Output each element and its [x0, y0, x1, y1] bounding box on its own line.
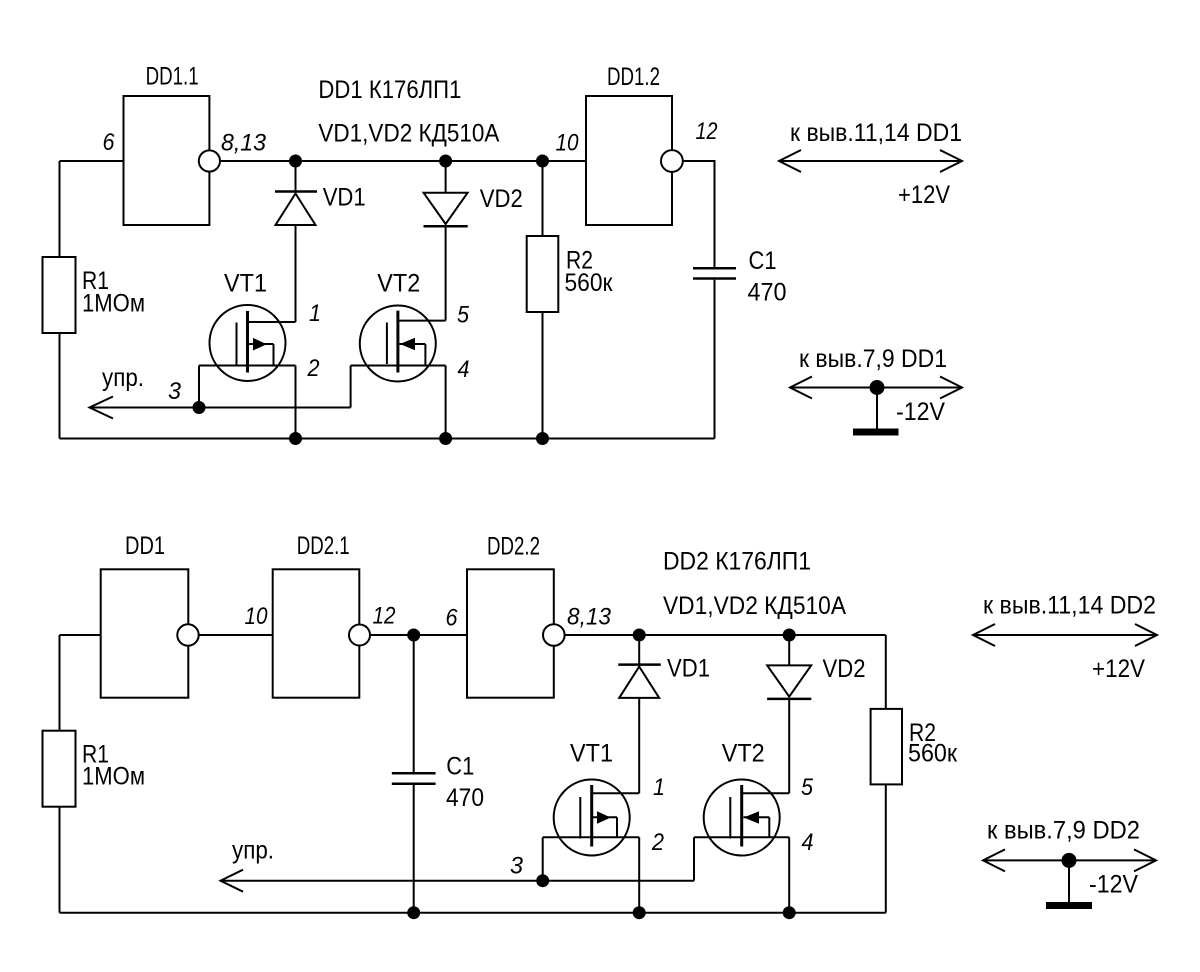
wire: VT2 source drop to bottom bus — [445, 366, 447, 439]
svg-text:VT2: VT2 — [377, 269, 420, 297]
svg-text:к выв.7,9 DD1: к выв.7,9 DD1 — [799, 345, 947, 373]
svg-text:8,13: 8,13 — [221, 130, 267, 157]
inversion bubble DD2.2 output — [543, 624, 565, 646]
wire: VT1 source drop to bottom bus — [295, 366, 297, 439]
logic gate DD1.2 box — [586, 96, 672, 225]
resistor R2 leads (bottom) — [885, 635, 887, 709]
resistor R2 — [527, 236, 559, 312]
wire: left branch vertical (R1 leads) — [59, 635, 61, 731]
svg-text:VD1: VD1 — [323, 184, 366, 212]
node: dot on -12V arrow (bottom) — [1062, 853, 1077, 868]
wire: VT2 gate rise from control net — [350, 366, 352, 408]
svg-text:DD2.2: DD2.2 — [487, 533, 540, 561]
node: bus dot VT1 — [633, 906, 646, 919]
svg-text:10: 10 — [245, 603, 269, 630]
wire: ground stem (bottom) — [1068, 860, 1070, 902]
svg-text:DD2.1: DD2.1 — [297, 532, 350, 560]
inversion bubble DD1.2 output — [661, 150, 683, 172]
wire: C1 branch upper — [413, 635, 415, 772]
wire: VT1 source drop to bottom bus — [638, 837, 640, 912]
inversion bubble DD2.1 output — [349, 625, 370, 646]
svg-text:DD1.2: DD1.2 — [607, 63, 660, 91]
transistor VT2 (MOSFET) — [351, 306, 446, 382]
svg-text:VT1: VT1 — [224, 269, 267, 297]
svg-text:2: 2 — [307, 355, 320, 382]
svg-text:к выв.7,9 DD2: к выв.7,9 DD2 — [987, 817, 1140, 845]
node: junction dot VD2 — [783, 629, 796, 642]
svg-text:470: 470 — [446, 784, 484, 812]
svg-text:DD1: DD1 — [125, 532, 165, 560]
svg-text:VT1: VT1 — [570, 740, 613, 768]
svg-text:упр.: упр. — [102, 364, 144, 392]
svg-text:5: 5 — [801, 774, 814, 801]
+12V supply double arrow (bottom) — [973, 624, 1157, 646]
resistor R2 (bottom) — [871, 709, 902, 785]
svg-text:3: 3 — [510, 852, 524, 879]
svg-text:560к: 560к — [565, 269, 614, 297]
svg-text:C1: C1 — [749, 247, 777, 275]
wire: DD2.2 output net to R2 — [565, 634, 886, 636]
resistor R1 — [43, 257, 76, 333]
svg-text:DD1 К176ЛП1: DD1 К176ЛП1 — [318, 76, 461, 104]
svg-text:1: 1 — [309, 300, 321, 327]
resistor R1 (bottom) — [43, 731, 76, 807]
inversion bubble DD1.1 output — [199, 150, 220, 171]
svg-text:1МОм: 1МОм — [82, 763, 145, 791]
svg-text:1МОм: 1МОм — [82, 289, 145, 317]
wire: VT1 gate drop to control net — [198, 366, 200, 408]
-12V supply double arrow (bottom) — [983, 849, 1156, 871]
node: junction dot VD1 — [633, 629, 646, 642]
svg-text:VD1,VD2 КД510А: VD1,VD2 КД510А — [663, 592, 846, 620]
svg-text:DD2 К176ЛП1: DD2 К176ЛП1 — [663, 548, 811, 576]
ground symbol — [853, 429, 899, 436]
inversion bubble DD1 output — [177, 624, 198, 645]
capacitor C1 — [693, 267, 736, 270]
svg-text:DD1.1: DD1.1 — [146, 62, 199, 90]
node: junction dot R2/top net — [536, 155, 549, 168]
node: junction dot gate VT1/control (bottom) — [536, 874, 549, 887]
capacitor C1 (bottom) — [392, 772, 436, 775]
logic gate DD1.1 box — [124, 96, 210, 225]
wire: ground stem — [876, 388, 878, 430]
svg-text:4: 4 — [458, 356, 470, 383]
node: junction dot C1 — [407, 629, 420, 642]
svg-text:VD2: VD2 — [823, 655, 866, 683]
svg-text:VT2: VT2 — [722, 740, 765, 768]
svg-text:-12V: -12V — [1089, 871, 1138, 899]
svg-text:3: 3 — [168, 378, 182, 405]
wire: VT2 gate rise from control net — [693, 837, 695, 880]
svg-text:560к: 560к — [908, 740, 958, 768]
svg-text:VD1: VD1 — [667, 655, 710, 683]
svg-text:VD2: VD2 — [480, 185, 523, 213]
logic gate DD1 box — [101, 569, 189, 697]
control net arrow (upr., bottom) — [221, 880, 695, 882]
control net arrow (upr.) — [90, 407, 351, 409]
wire: output net DD1.1 to DD1.2 pin 10 — [220, 160, 586, 162]
node: junction dot VD1/top net — [289, 155, 302, 168]
node: bus dot VT1 — [289, 432, 302, 445]
svg-text:5: 5 — [457, 302, 470, 329]
svg-text:к выв.11,14 DD2: к выв.11,14 DD2 — [983, 592, 1156, 620]
svg-text:470: 470 — [748, 279, 787, 307]
ground symbol (bottom) — [1046, 902, 1092, 909]
svg-text:к выв.11,14 DD1: к выв.11,14 DD1 — [790, 119, 962, 147]
node: bus dot R2 — [536, 432, 549, 445]
node: bus dot VT2 — [439, 432, 452, 445]
+12V supply double arrow — [779, 150, 962, 172]
logic gate DD2.2 box — [467, 569, 554, 697]
transistor VT1 (MOSFET) — [199, 225, 296, 381]
node: junction dot VD2/top net — [439, 155, 452, 168]
diode VD2 (cathode bar down) — [445, 161, 447, 193]
svg-text:4: 4 — [802, 829, 814, 856]
wire: VT1 gate drop to control net — [542, 837, 544, 880]
svg-text:+12V: +12V — [1092, 655, 1145, 683]
svg-text:1: 1 — [653, 774, 665, 801]
node: bus dot VT2 — [783, 906, 796, 919]
wire: DD1 out to DD2.1 in — [199, 634, 273, 636]
wire: bottom bus of bottom circuit — [60, 912, 886, 914]
svg-text:C1: C1 — [446, 753, 474, 781]
transistor VT2 (bottom MOSFET) — [694, 780, 789, 856]
wire: bottom bus of top circuit — [60, 438, 715, 440]
svg-text:6: 6 — [103, 129, 116, 156]
node: junction dot gate VT1/control — [193, 401, 206, 414]
svg-text:упр.: упр. — [232, 837, 274, 865]
resistor R2 leads — [542, 161, 544, 236]
svg-text:2: 2 — [651, 829, 664, 856]
node: dot on -12V arrow — [870, 380, 885, 395]
diode VD1 (bottom, cathode bar up) — [638, 635, 640, 664]
node: bus dot C1 — [407, 906, 420, 919]
svg-text:+12V: +12V — [898, 181, 950, 209]
wire: left net to DD1 pin input — [60, 634, 101, 636]
diode VD1 (cathode bar up) — [295, 161, 297, 191]
svg-text:-12V: -12V — [896, 398, 945, 426]
svg-text:VD1,VD2 КД510А: VD1,VD2 КД510А — [318, 120, 499, 148]
svg-text:8,13: 8,13 — [567, 604, 612, 631]
svg-text:6: 6 — [446, 605, 459, 632]
svg-text:12: 12 — [373, 602, 396, 629]
transistor VT1 (bottom MOSFET) — [543, 698, 640, 856]
logic gate DD2.1 box — [273, 569, 360, 697]
wire: top net from R1 to DD1.1 pin 6 — [60, 160, 124, 162]
diode VD2 (bottom, cathode bar down) — [788, 635, 790, 665]
svg-text:12: 12 — [696, 118, 718, 145]
-12V supply double arrow — [790, 377, 962, 399]
wire: DD1.2 output to C1 — [683, 161, 715, 267]
wire: DD2.1 out to DD2.2 in — [370, 634, 467, 636]
wire: VT2 source drop to bottom bus — [788, 837, 790, 912]
svg-text:10: 10 — [556, 129, 580, 156]
wire: left branch vertical (R1 leads) — [59, 161, 61, 257]
